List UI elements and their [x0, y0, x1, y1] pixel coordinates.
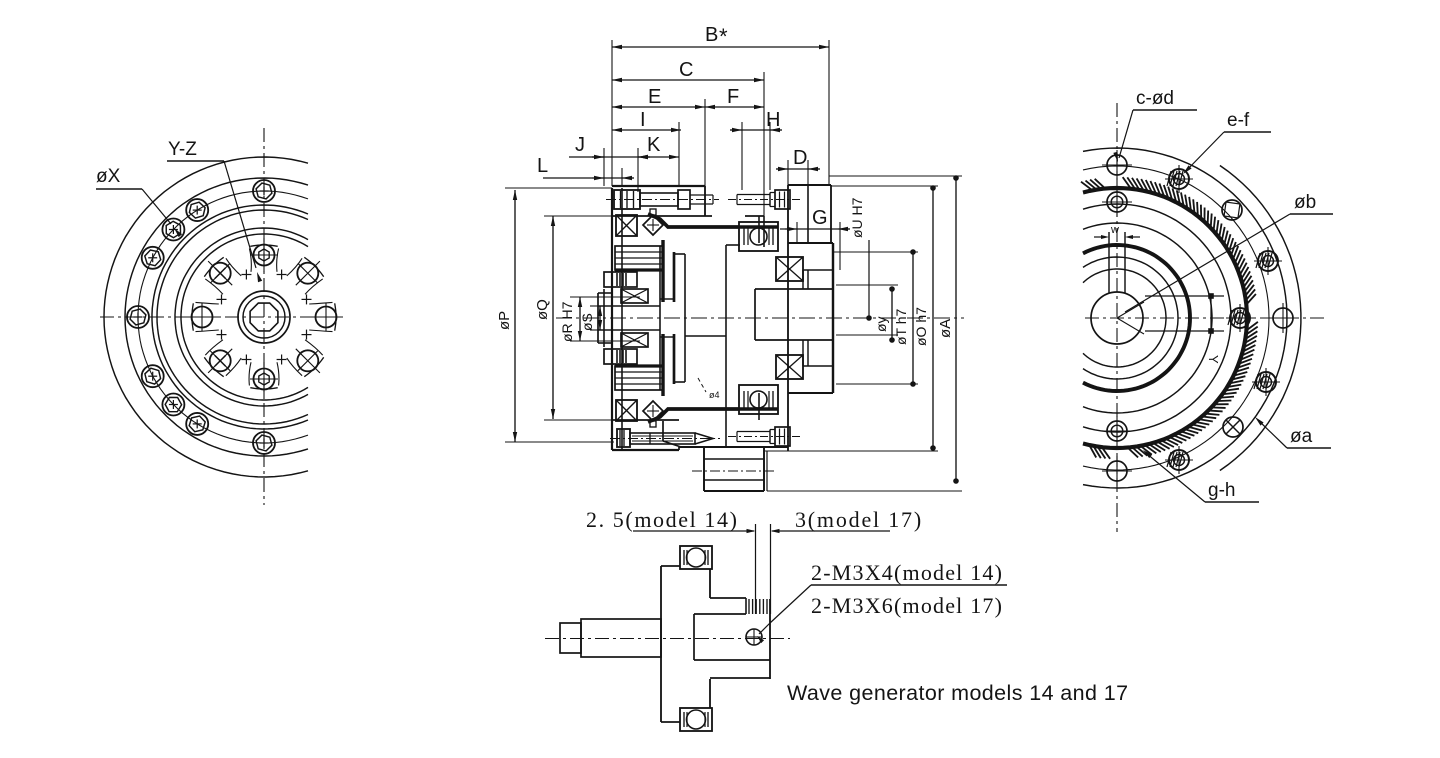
svg-text:øP: øP — [496, 311, 513, 330]
svg-text:øO h7: øO h7 — [913, 307, 929, 346]
svg-text:c-ød: c-ød — [1136, 88, 1174, 109]
svg-text:K: K — [647, 134, 661, 156]
svg-text:e-f: e-f — [1227, 110, 1250, 131]
svg-text:B: B — [705, 24, 718, 46]
svg-text:C: C — [679, 59, 693, 81]
svg-text:g-h: g-h — [1208, 480, 1235, 501]
svg-text:3(model 17): 3(model 17) — [795, 507, 923, 532]
svg-text:E: E — [648, 86, 661, 108]
svg-text:L: L — [537, 155, 548, 177]
svg-text:Wave generator models 14 and 1: Wave generator models 14 and 17 — [787, 681, 1128, 705]
svg-text:øQ: øQ — [534, 299, 551, 320]
svg-text:Y-Z: Y-Z — [168, 139, 197, 160]
svg-text:*: * — [719, 24, 728, 49]
svg-text:J: J — [575, 134, 585, 156]
svg-text:2. 5(model 14): 2. 5(model 14) — [586, 507, 739, 532]
svg-text:2-M3X4(model 14): 2-M3X4(model 14) — [811, 560, 1003, 585]
svg-text:w: w — [1110, 224, 1119, 236]
svg-text:øy: øy — [873, 316, 889, 332]
svg-text:øU H7: øU H7 — [849, 197, 865, 238]
svg-text:G: G — [812, 207, 828, 229]
svg-text:øT h7: øT h7 — [893, 308, 909, 345]
svg-text:øX: øX — [96, 166, 121, 187]
svg-text:I: I — [640, 109, 646, 131]
svg-text:F: F — [727, 86, 739, 108]
svg-text:øb: øb — [1294, 192, 1316, 213]
svg-text:D: D — [793, 147, 807, 169]
svg-text:2-M3X6(model 17): 2-M3X6(model 17) — [811, 593, 1003, 618]
svg-text:H: H — [766, 109, 780, 131]
svg-text:øS: øS — [579, 313, 595, 331]
svg-text:øA: øA — [937, 319, 954, 338]
svg-text:øR H7: øR H7 — [559, 301, 575, 342]
svg-text:Y: Y — [1206, 355, 1221, 364]
svg-text:øa: øa — [1290, 426, 1313, 447]
svg-text:ø4: ø4 — [709, 390, 720, 400]
